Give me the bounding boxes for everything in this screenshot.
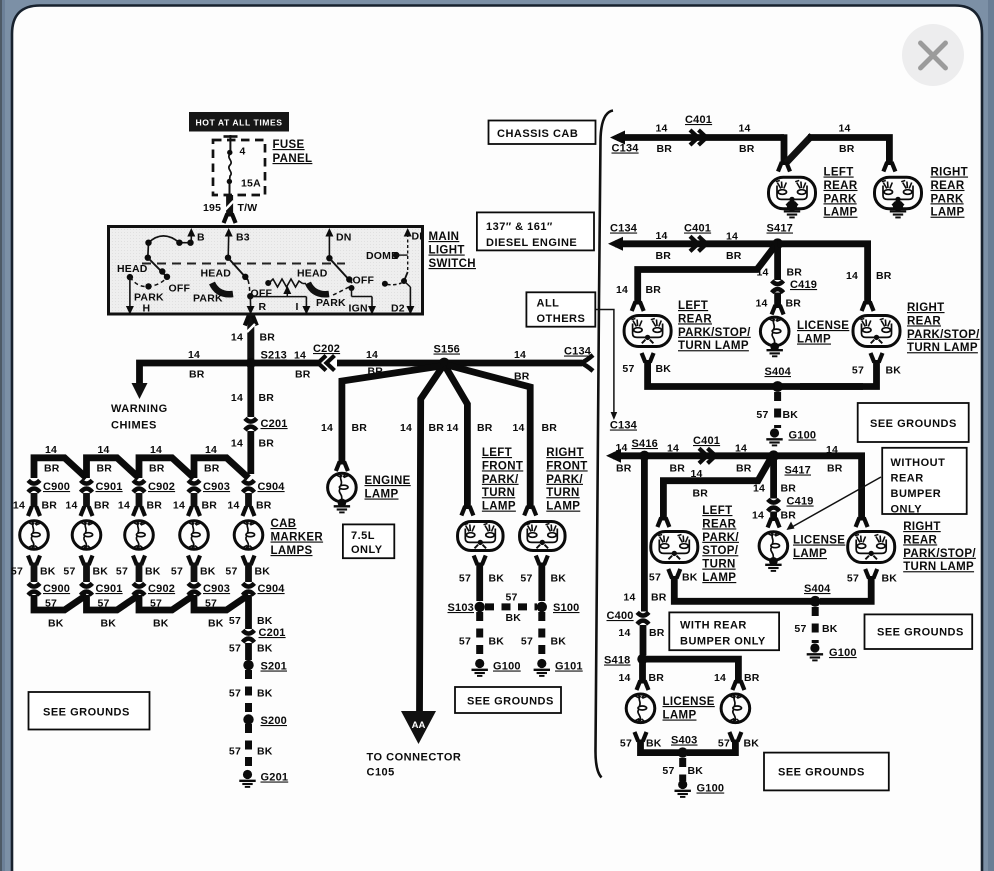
svg-text:C201: C201: [261, 418, 288, 430]
switch wiper DN: [329, 258, 352, 283]
svg-text:57: 57: [852, 365, 864, 377]
svg-text:LAMP: LAMP: [365, 489, 399, 501]
svg-text:BK: BK: [257, 615, 273, 627]
cab marker lamp 3: [125, 520, 154, 549]
wire terminal: [883, 162, 887, 172]
svg-text:SEE GROUNDS: SEE GROUNDS: [877, 627, 964, 639]
note box SEE GROUNDS (centre): [455, 687, 561, 713]
terminal I: [305, 297, 307, 306]
splice S404 (all others): [810, 596, 821, 607]
svg-text:14: 14: [366, 349, 378, 361]
close button: [902, 24, 964, 86]
svg-text:BR: BR: [259, 392, 275, 404]
wire diagonal joint: [786, 136, 812, 164]
svg-text:C419: C419: [790, 279, 817, 291]
wire terminal: [862, 302, 866, 312]
svg-text:SEE GROUNDS: SEE GROUNDS: [870, 418, 957, 430]
wiper crescent (middle): [212, 283, 233, 294]
wire: [538, 563, 545, 602]
svg-text:DN: DN: [336, 232, 352, 244]
svg-text:WARNING: WARNING: [111, 403, 168, 415]
main light switch box: [109, 227, 423, 315]
svg-text:C134: C134: [564, 346, 592, 358]
svg-text:IGN: IGN: [349, 303, 368, 315]
svg-text:57: 57: [229, 688, 241, 700]
svg-text:BK: BK: [257, 643, 273, 655]
wire C904 to lamp: [245, 493, 252, 507]
wire terminal: [188, 556, 192, 566]
wire feed C903: [194, 458, 249, 478]
svg-text:G101: G101: [555, 661, 583, 673]
svg-text:57: 57: [229, 615, 241, 627]
wire terminal: [336, 462, 340, 472]
wire lamp 2 ground lead: [83, 563, 90, 583]
arrow: [325, 228, 333, 237]
svg-text:TURN: TURN: [482, 487, 515, 499]
svg-text:BR: BR: [616, 463, 632, 475]
wire terminal: [536, 556, 540, 566]
svg-text:R: R: [259, 301, 267, 313]
svg-text:137″ & 161″: 137″ & 161″: [486, 221, 553, 233]
arrow to warning chimes: [132, 383, 148, 399]
svg-text:SEE GROUNDS: SEE GROUNDS: [467, 696, 554, 708]
connector C900 (ground side): [28, 583, 40, 586]
svg-text:LAMP: LAMP: [793, 548, 827, 560]
svg-text:BR: BR: [649, 627, 665, 639]
svg-text:BR: BR: [786, 298, 802, 310]
arrow: [247, 306, 255, 315]
svg-text:BR: BR: [726, 250, 742, 262]
wire S404 to G100 (all others, dashed): [812, 607, 819, 643]
svg-text:57: 57: [847, 573, 859, 585]
wire: [770, 458, 777, 499]
ground G101: [537, 659, 546, 668]
svg-text:BR: BR: [736, 463, 752, 475]
svg-text:HEAD: HEAD: [297, 268, 328, 280]
svg-text:RIGHT: RIGHT: [931, 167, 969, 179]
svg-text:14: 14: [514, 349, 526, 361]
svg-text:LAMP: LAMP: [482, 501, 516, 513]
svg-text:14: 14: [752, 510, 764, 522]
wire S200 to G201 (dashed): [245, 724, 252, 769]
svg-text:57: 57: [171, 566, 183, 578]
svg-text:OTHERS: OTHERS: [537, 313, 586, 325]
terminal H: [129, 277, 131, 306]
license lamp (all others): [759, 531, 788, 560]
svg-text:57: 57: [116, 566, 128, 578]
connector C903 (ground side): [188, 583, 200, 586]
svg-text:14: 14: [231, 392, 243, 404]
arrow: [126, 306, 134, 315]
wire lamp 5 ground lead: [245, 563, 252, 583]
svg-text:BK: BK: [101, 618, 117, 630]
svg-text:LIGHT: LIGHT: [429, 245, 465, 257]
wire C903 to lamp: [191, 493, 198, 507]
svg-text:D2: D2: [391, 303, 405, 315]
svg-text:BK: BK: [822, 623, 838, 635]
terminal R: [249, 296, 251, 306]
svg-text:S100: S100: [553, 602, 580, 614]
splice S100: [537, 602, 547, 612]
wire S417 to left rear lamp (all others): [663, 458, 771, 521]
ground G100 (front): [475, 659, 484, 668]
svg-text:C904: C904: [258, 481, 286, 493]
svg-text:LAMP: LAMP: [931, 207, 965, 219]
svg-text:14: 14: [756, 298, 768, 310]
svg-text:FRONT: FRONT: [482, 460, 523, 472]
svg-text:B3: B3: [236, 232, 250, 244]
svg-text:TURN: TURN: [546, 487, 579, 499]
connector C901 (ground side): [81, 583, 93, 586]
wire terminal: [657, 518, 661, 528]
svg-text:BR: BR: [256, 500, 272, 512]
svg-text:BR: BR: [44, 463, 60, 475]
svg-text:DI: DI: [412, 231, 423, 243]
svg-text:BK: BK: [40, 566, 56, 578]
splice S200: [243, 714, 253, 724]
svg-text:PARK: PARK: [316, 297, 346, 309]
svg-text:BR: BR: [42, 500, 58, 512]
wire terminal: [668, 569, 672, 579]
svg-text:HEAD: HEAD: [117, 263, 148, 275]
terminal IGN: [351, 288, 353, 297]
svg-text:BR: BR: [260, 332, 276, 344]
wire terminal: [642, 353, 646, 363]
svg-text:57: 57: [459, 573, 471, 585]
svg-text:STOP/: STOP/: [702, 545, 739, 557]
svg-text:BR: BR: [477, 422, 493, 434]
svg-text:ONLY: ONLY: [891, 504, 923, 516]
wire 195 T/W: [226, 195, 233, 217]
connector C904: [243, 480, 255, 483]
svg-text:S416: S416: [632, 438, 659, 450]
svg-text:57: 57: [620, 738, 632, 750]
splice S201: [243, 660, 253, 670]
wire right lamp to S404 (diesel): [800, 360, 877, 387]
wire left lamp to S404 (all others): [674, 576, 811, 601]
svg-text:H: H: [143, 303, 151, 315]
svg-text:C401: C401: [685, 114, 712, 126]
svg-text:LAMP: LAMP: [824, 207, 858, 219]
connector C134 (chassis cab): [610, 131, 625, 145]
pointer arrow without-rear-bumper: [792, 477, 881, 527]
ground G100 (bumper): [678, 780, 687, 789]
connector C419 (diesel): [772, 281, 784, 284]
svg-text:MAIN: MAIN: [429, 231, 460, 243]
svg-text:BK: BK: [506, 612, 522, 624]
svg-text:RIGHT: RIGHT: [907, 302, 945, 314]
svg-text:BR: BR: [259, 438, 275, 450]
svg-text:14: 14: [623, 592, 635, 604]
wire terminal: [243, 507, 247, 517]
svg-text:C400: C400: [607, 610, 634, 622]
svg-text:14: 14: [173, 500, 185, 512]
svg-text:LICENSE: LICENSE: [793, 535, 845, 547]
connector C201 (ground side): [243, 630, 255, 633]
svg-text:BK: BK: [886, 365, 902, 377]
svg-text:MARKER: MARKER: [271, 532, 324, 544]
note box 7.5L ONLY: [343, 524, 394, 558]
svg-text:BR: BR: [876, 270, 892, 282]
connector C904 (ground side): [243, 583, 255, 586]
wire feed C901: [87, 458, 140, 478]
svg-text:PARK/STOP/: PARK/STOP/: [907, 329, 980, 341]
svg-text:C134: C134: [612, 143, 640, 155]
wire terminal: [637, 681, 641, 691]
wire: [774, 293, 781, 309]
wire terminal: [632, 302, 636, 312]
svg-text:BR: BR: [787, 267, 803, 279]
wire terminal: [768, 518, 772, 528]
svg-text:C902: C902: [148, 481, 175, 493]
wire terminal: [28, 556, 32, 566]
svg-text:TURN LAMP: TURN LAMP: [903, 561, 974, 573]
connector C134 (cab side): [581, 355, 593, 371]
svg-text:BK: BK: [257, 688, 273, 700]
svg-text:14: 14: [447, 422, 459, 434]
arrow: [302, 306, 310, 315]
svg-text:LAMP: LAMP: [663, 710, 697, 722]
wire: [245, 643, 252, 660]
connector C900: [28, 480, 40, 483]
svg-text:195: 195: [203, 202, 221, 214]
svg-text:CHIMES: CHIMES: [111, 420, 157, 432]
wire: [337, 360, 444, 367]
svg-text:14: 14: [739, 123, 751, 135]
svg-text:S404: S404: [765, 366, 792, 378]
svg-text:57: 57: [662, 765, 674, 777]
svg-text:I: I: [296, 301, 299, 313]
svg-text:DIESEL ENGINE: DIESEL ENGINE: [486, 237, 577, 249]
wire right license lamp to S403: [687, 740, 735, 753]
svg-text:OFF: OFF: [353, 275, 375, 287]
ground G100 (all others): [810, 643, 819, 652]
wire feed C902: [139, 458, 194, 478]
svg-text:TURN LAMP: TURN LAMP: [678, 340, 749, 352]
connector C419 (all others): [768, 499, 780, 502]
svg-text:PARK: PARK: [931, 193, 964, 205]
svg-text:LAMPS: LAMPS: [271, 545, 313, 557]
svg-text:G100: G100: [697, 783, 725, 795]
svg-text:57: 57: [520, 573, 532, 585]
arrow: [187, 228, 195, 237]
wire: [640, 625, 647, 655]
svg-text:PARK: PARK: [824, 193, 857, 205]
svg-text:HOT AT ALL TIMES: HOT AT ALL TIMES: [195, 118, 282, 128]
svg-text:14: 14: [45, 444, 57, 456]
svg-text:S417: S417: [785, 465, 812, 477]
svg-text:C901: C901: [96, 583, 123, 595]
svg-text:BR: BR: [149, 463, 165, 475]
svg-text:7.5L: 7.5L: [351, 530, 375, 542]
wire S404 to G100 (diesel, dashed): [774, 392, 781, 428]
svg-text:LAMP: LAMP: [546, 501, 580, 513]
svg-text:14: 14: [667, 443, 679, 455]
svg-text:BK: BK: [656, 363, 672, 375]
svg-text:TURN: TURN: [702, 559, 735, 571]
svg-text:BR: BR: [94, 500, 110, 512]
svg-text:BUMPER ONLY: BUMPER ONLY: [680, 636, 766, 648]
svg-text:C903: C903: [203, 583, 230, 595]
svg-text:CAB: CAB: [271, 518, 297, 530]
note box WITH REAR BUMPER ONLY: [669, 612, 779, 650]
wire: [639, 661, 646, 684]
svg-text:BR: BR: [295, 369, 311, 381]
svg-text:C900: C900: [43, 583, 70, 595]
svg-text:C904: C904: [258, 583, 286, 595]
svg-text:LICENSE: LICENSE: [663, 696, 715, 708]
wire S417 to left rear park/stop/turn lamp: [638, 246, 775, 305]
wire: [613, 452, 644, 459]
svg-text:C419: C419: [787, 496, 814, 508]
splice S417 (all others): [768, 450, 779, 461]
wire terminal: [188, 507, 192, 517]
arrow: [404, 228, 412, 237]
connector C901: [81, 480, 93, 483]
connector C902 (ground side): [133, 583, 145, 586]
wire: [247, 431, 254, 474]
note box CHASSIS CAB: [489, 121, 596, 145]
note box WITHOUT REAR BUMPER ONLY: [882, 448, 967, 514]
svg-text:14: 14: [231, 332, 243, 344]
svg-text:14: 14: [118, 500, 130, 512]
wire terminal: [224, 214, 228, 224]
wire terminal: [524, 506, 528, 516]
svg-text:C901: C901: [96, 481, 123, 493]
svg-text:14: 14: [231, 438, 243, 450]
svg-text:S103: S103: [448, 602, 475, 614]
wire right lamp to S404 (all others): [820, 576, 871, 601]
wire lamp 4 ground lead: [191, 563, 198, 583]
svg-text:ENGINE: ENGINE: [365, 475, 411, 487]
svg-text:BK: BK: [783, 409, 799, 421]
note box SEE GROUNDS (bottom): [764, 753, 889, 791]
svg-text:LAMP: LAMP: [797, 334, 831, 346]
ground G201: [243, 770, 252, 779]
svg-text:14: 14: [616, 442, 628, 454]
svg-text:C134: C134: [610, 223, 638, 235]
svg-text:57: 57: [622, 363, 634, 375]
wire terminal: [133, 507, 137, 517]
wire S403 to G100 (dashed): [679, 758, 686, 781]
svg-text:14: 14: [13, 500, 25, 512]
switch wiper B3: [228, 258, 248, 280]
svg-text:ALL: ALL: [537, 298, 560, 310]
wire: [617, 134, 784, 141]
fuse 15A: [227, 150, 232, 155]
svg-text:BK: BK: [255, 566, 271, 578]
svg-text:PARK/STOP/: PARK/STOP/: [903, 548, 976, 560]
svg-text:BK: BK: [145, 566, 161, 578]
fuse panel: [213, 140, 265, 195]
wire C902 to lamp: [136, 493, 143, 507]
wire terminal: [856, 518, 860, 528]
svg-text:REAR: REAR: [824, 180, 858, 192]
svg-text:BR: BR: [651, 592, 667, 604]
svg-text:C134: C134: [610, 420, 638, 432]
svg-text:14: 14: [846, 270, 858, 282]
splice S417 (diesel): [772, 238, 783, 249]
arrow: [368, 306, 376, 315]
svg-text:14: 14: [753, 483, 765, 495]
svg-text:57: 57: [11, 566, 23, 578]
svg-text:BR: BR: [189, 369, 205, 381]
wire: [448, 360, 582, 367]
svg-text:BR: BR: [781, 483, 797, 495]
switch wiper DI: [404, 272, 408, 281]
ground G100 (diesel): [770, 428, 779, 437]
wire: [247, 363, 254, 417]
splice S213: [246, 358, 256, 368]
svg-text:57: 57: [649, 572, 661, 584]
svg-text:SWITCH: SWITCH: [429, 258, 476, 270]
svg-text:PARK: PARK: [193, 293, 223, 305]
svg-text:C201: C201: [259, 627, 286, 639]
arrow: [225, 228, 233, 237]
wire feed C900: [34, 458, 87, 478]
cab marker lamp 1: [20, 520, 49, 549]
svg-text:BR: BR: [147, 500, 163, 512]
wire ground chain C903: [194, 595, 249, 610]
svg-text:57: 57: [98, 598, 110, 610]
connector C401 (diesel): [690, 236, 698, 251]
splice S418: [637, 654, 647, 664]
svg-text:C902: C902: [148, 583, 175, 595]
wire S418 to right license lamp: [643, 659, 739, 683]
wire S103 to G100 (dashed): [476, 612, 483, 659]
wire: [245, 595, 252, 629]
svg-text:G100: G100: [829, 647, 857, 659]
svg-text:REAR: REAR: [702, 518, 736, 530]
wire: [641, 456, 648, 612]
svg-text:BK: BK: [153, 618, 169, 630]
svg-text:BK: BK: [257, 746, 273, 758]
svg-text:WITH REAR: WITH REAR: [680, 620, 747, 632]
connector C201: [245, 418, 257, 421]
svg-text:BR: BR: [657, 143, 673, 155]
svg-text:14: 14: [150, 444, 162, 456]
svg-text:OFF: OFF: [251, 288, 273, 300]
wire terminal: [732, 681, 736, 691]
svg-text:14: 14: [618, 627, 630, 639]
connector C903: [188, 480, 200, 483]
svg-text:HEAD: HEAD: [201, 268, 232, 280]
connector C202: [318, 356, 326, 371]
wire terminal: [243, 556, 247, 566]
wire C900 to lamp: [31, 493, 38, 507]
svg-text:BR: BR: [827, 463, 843, 475]
svg-text:BR: BR: [744, 672, 760, 684]
svg-text:CHASSIS CAB: CHASSIS CAB: [497, 128, 578, 140]
svg-text:BK: BK: [688, 765, 704, 777]
svg-text:S200: S200: [261, 715, 288, 727]
svg-text:FRONT: FRONT: [546, 460, 587, 472]
svg-text:14: 14: [691, 468, 703, 480]
wire: [774, 246, 781, 280]
wire: [770, 512, 777, 522]
svg-text:REAR: REAR: [931, 180, 965, 192]
svg-text:SEE GROUNDS: SEE GROUNDS: [43, 707, 130, 719]
svg-text:BR: BR: [656, 250, 672, 262]
HOT AT ALL TIMES label: [189, 112, 289, 132]
svg-text:REAR: REAR: [891, 473, 924, 485]
cab marker lamp 4: [180, 520, 209, 549]
wire terminal: [772, 305, 776, 315]
svg-text:B: B: [197, 232, 205, 244]
svg-text:S417: S417: [767, 223, 794, 235]
splice S416: [639, 451, 649, 461]
svg-text:BR: BR: [97, 463, 113, 475]
